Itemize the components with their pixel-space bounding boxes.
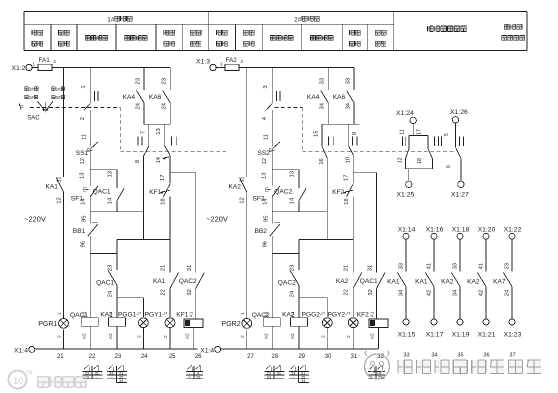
svg-text:X1:27: X1:27 — [451, 192, 469, 199]
svg-text:A2: A2 — [369, 333, 375, 339]
wire main to contactor coil — [89, 236, 91, 318]
svg-text:3: 3 — [263, 85, 269, 88]
svg-text:A2: A2 — [290, 333, 296, 339]
svg-text:KA4: KA4 — [307, 94, 320, 101]
SAC cam contact 9/10 — [348, 124, 350, 146]
svg-text:33: 33 — [403, 352, 409, 358]
wire branch down — [298, 240, 300, 254]
wire — [169, 197, 171, 240]
svg-text:X1:15: X1:15 — [398, 331, 416, 338]
svg-text:A2: A2 — [263, 333, 269, 339]
linkage dashed line pump1 — [30, 106, 120, 108]
contact cross-reference table KF1 — [188, 365, 193, 369]
SAC cam contact 13/14 — [164, 124, 166, 146]
svg-text:1: 1 — [220, 62, 223, 67]
svg-text:X1:20: X1:20 — [478, 227, 496, 234]
svg-text:34: 34 — [320, 102, 326, 109]
svg-text:41: 41 — [426, 263, 432, 269]
svg-text:2: 2 — [241, 59, 244, 64]
svg-text:1: 1 — [32, 62, 35, 67]
svg-text:23: 23 — [108, 265, 114, 271]
header cell: overload feedback signal 过负荷返回信号 — [504, 24, 509, 29]
svg-text:21: 21 — [160, 265, 166, 271]
svg-text:X1:24: X1:24 — [396, 110, 414, 117]
svg-text:KA1: KA1 — [153, 278, 166, 285]
svg-text:FA2: FA2 — [226, 57, 238, 64]
svg-text:23: 23 — [267, 375, 271, 379]
contact KA4 23/24 — [143, 68, 145, 90]
svg-text:KA1: KA1 — [415, 278, 428, 285]
wire node 17 — [170, 172, 196, 174]
svg-text:1: 1 — [163, 311, 169, 314]
svg-text:24: 24 — [135, 102, 141, 109]
svg-text:32: 32 — [187, 289, 193, 295]
svg-text:QAC1: QAC1 — [93, 189, 111, 196]
wire stop-lamp column pump1 — [63, 68, 65, 178]
selector switch SAC — [25, 87, 29, 91]
wire stop-lamp column pump2 — [246, 68, 248, 178]
wire node 17 — [353, 172, 376, 174]
svg-text:X1:2: X1:2 — [12, 65, 26, 72]
wire cam right bottom — [352, 155, 354, 173]
svg-text:X1:22: X1:22 — [504, 227, 522, 234]
svg-text:KA2: KA2 — [441, 278, 454, 285]
svg-text:2: 2 — [346, 335, 352, 338]
svg-text:1: 1 — [57, 312, 63, 315]
svg-text:12: 12 — [80, 158, 86, 164]
svg-text:17: 17 — [160, 175, 166, 181]
wire rejoin node — [90, 211, 143, 213]
wire node H2 — [299, 239, 353, 241]
header cell: pump1 备用自投 — [190, 30, 195, 35]
cam position bars — [137, 136, 139, 145]
contact QAC2 23/24 NO run-indicating — [298, 254, 300, 270]
contact cross-reference table KF2 — [370, 365, 375, 369]
svg-text:31: 31 — [350, 354, 357, 360]
svg-text:36: 36 — [483, 352, 489, 358]
header cell: pump2 备用自投 — [375, 30, 380, 35]
svg-text:2#: 2# — [56, 95, 62, 100]
wire — [271, 110, 273, 146]
svg-text:2: 2 — [57, 335, 63, 338]
svg-text:42: 42 — [426, 290, 432, 296]
wire main to contactor coil — [271, 236, 273, 318]
svg-text:11: 11 — [399, 129, 405, 134]
svg-text:24: 24 — [108, 290, 114, 297]
svg-text:13: 13 — [156, 128, 162, 134]
svg-text:7: 7 — [140, 131, 146, 134]
svg-text:BB1: BB1 — [73, 228, 86, 235]
wire main column top pump1 — [89, 68, 91, 104]
header cell: pump2 自动控制 — [311, 36, 316, 41]
svg-text:PGG2-: PGG2- — [302, 311, 323, 318]
svg-text:A1: A1 — [189, 311, 195, 317]
contact KA2 21/22 NC — [352, 240, 354, 273]
svg-text:18: 18 — [344, 198, 350, 204]
header cell: pump1 控制电源 — [32, 30, 37, 35]
svg-text:34: 34 — [398, 289, 404, 296]
wire rejoin node — [272, 211, 327, 213]
header cell: pump1 手动控制 — [85, 36, 90, 41]
svg-text:23: 23 — [504, 263, 510, 269]
svg-text:13: 13 — [262, 173, 268, 179]
svg-text:FA1: FA1 — [39, 57, 51, 64]
svg-text:12: 12 — [262, 158, 268, 164]
svg-text:X1:25: X1:25 — [397, 192, 415, 199]
wire — [352, 197, 354, 240]
svg-text:34: 34 — [345, 102, 351, 109]
svg-text:KF2: KF2 — [332, 189, 344, 196]
svg-text:QAC2: QAC2 — [179, 278, 197, 285]
svg-text:1#: 1# — [29, 95, 35, 100]
svg-text:14: 14 — [290, 197, 296, 204]
svg-text:KA7: KA7 — [493, 278, 506, 285]
svg-text:31: 31 — [187, 265, 193, 271]
svg-text:QAC1: QAC1 — [360, 278, 378, 285]
svg-text:A1: A1 — [108, 311, 114, 317]
svg-text:1#: 1# — [56, 87, 62, 92]
wire L bus pump2 — [239, 67, 354, 69]
svg-text:95: 95 — [82, 216, 88, 222]
wire cam left bottom — [326, 158, 328, 239]
svg-text:11: 11 — [264, 134, 270, 140]
svg-text:X1:19: X1:19 — [452, 331, 470, 338]
wire branch down — [116, 240, 118, 254]
svg-text:8: 8 — [135, 160, 141, 163]
svg-text:2: 2 — [53, 59, 56, 64]
svg-text:34: 34 — [119, 379, 123, 383]
svg-text:15: 15 — [314, 131, 320, 137]
svg-text:X1:14: X1:14 — [398, 227, 416, 234]
contact cross-reference table KA1 — [108, 365, 113, 369]
svg-text:18: 18 — [161, 198, 167, 204]
watermark seal circle (gray) — [365, 354, 390, 379]
header cell: pump1 故障指示 — [164, 30, 169, 35]
svg-text:31: 31 — [368, 265, 374, 271]
svg-text:14: 14 — [108, 197, 114, 204]
svg-text:X1:17: X1:17 — [426, 331, 444, 338]
header cell: pump2 故障指示 — [350, 30, 355, 35]
svg-text:22: 22 — [160, 289, 166, 295]
svg-text:KF1: KF1 — [149, 189, 161, 196]
svg-text:QAC2: QAC2 — [274, 189, 292, 196]
header cell: pump1 停泵指示 — [59, 30, 64, 35]
svg-text:14: 14 — [263, 198, 269, 205]
svg-text:A1: A1 — [290, 311, 296, 317]
svg-text:X1:4: X1:4 — [14, 347, 28, 354]
svg-text:KA2: KA2 — [336, 278, 349, 285]
svg-text:KA4: KA4 — [123, 94, 136, 101]
svg-text:17: 17 — [343, 175, 349, 181]
svg-text:16: 16 — [319, 158, 325, 164]
svg-text:KA1: KA1 — [46, 184, 59, 191]
svg-text:1#: 1# — [107, 16, 115, 23]
svg-text:A2: A2 — [185, 333, 191, 339]
svg-text:X1:23: X1:23 — [504, 331, 522, 338]
svg-text:96: 96 — [262, 241, 268, 247]
svg-text:24: 24 — [504, 289, 510, 296]
contact cross-reference table QAC1 — [84, 365, 89, 369]
wire — [246, 192, 248, 319]
svg-text:33: 33 — [320, 78, 326, 84]
svg-text:32: 32 — [368, 289, 374, 295]
header cell: pump1 自动控制 — [125, 36, 130, 41]
svg-text:PGY1-: PGY1- — [145, 311, 165, 318]
svg-text:13: 13 — [80, 173, 86, 179]
contact QAC2 31/32 interlock — [195, 173, 197, 273]
svg-text:X1:18: X1:18 — [452, 227, 470, 234]
svg-text:24: 24 — [162, 102, 168, 109]
svg-text:6: 6 — [446, 165, 452, 168]
svg-text:21: 21 — [344, 265, 350, 271]
wire node to lamp branch — [272, 253, 299, 255]
svg-text:KA6: KA6 — [149, 94, 162, 101]
node split manual/auto — [90, 169, 117, 171]
svg-text:26: 26 — [195, 354, 202, 360]
svg-text:12: 12 — [398, 157, 404, 163]
svg-text:30: 30 — [325, 354, 332, 360]
svg-text:2#: 2# — [29, 87, 35, 92]
contact cross-reference table KA2 — [290, 365, 295, 369]
header cell: pump2 停泵指示 — [243, 30, 248, 35]
svg-text:A2: A2 — [108, 333, 114, 339]
svg-text:24: 24 — [290, 290, 296, 297]
svg-text:PGY2-: PGY2- — [328, 311, 348, 318]
wire — [246, 330, 248, 349]
svg-text:41: 41 — [478, 263, 484, 269]
svg-text:2: 2 — [240, 335, 246, 338]
header cell: fire feedback signal 消防返回信号 — [428, 26, 434, 32]
contact KA6 23/24 — [169, 68, 171, 90]
watermark text 国家建筑标准设计 (gray) — [398, 360, 412, 374]
svg-text:58: 58 — [27, 370, 33, 376]
wire N bus pump2 — [221, 348, 378, 350]
svg-text:KF2: KF2 — [357, 311, 369, 318]
SAC cam contact 7/8 — [148, 124, 150, 146]
svg-text:34: 34 — [301, 379, 305, 383]
wire join KA4/KA6 — [322, 123, 359, 125]
linkage dashed main run 2 — [302, 151, 453, 153]
svg-text:13: 13 — [107, 171, 113, 177]
svg-text:QAC2: QAC2 — [278, 280, 296, 287]
contact cross-reference table QAC2 — [266, 365, 271, 369]
svg-text:F: F — [20, 105, 24, 112]
svg-text:2#: 2# — [294, 16, 302, 23]
wire main column top pump2 — [271, 68, 273, 104]
svg-text:2: 2 — [163, 335, 169, 338]
svg-text:2: 2 — [320, 335, 326, 338]
svg-text:13: 13 — [289, 171, 295, 177]
svg-text:PGR2: PGR2 — [222, 321, 241, 328]
contact QAC1 23/24 NO run-indicating — [116, 254, 118, 270]
svg-text:X1:4: X1:4 — [200, 347, 214, 354]
svg-text:KA2: KA2 — [467, 278, 480, 285]
svg-text:29: 29 — [298, 354, 305, 360]
svg-text:KF1: KF1 — [176, 311, 188, 318]
wire L bus pump1 — [52, 67, 170, 69]
svg-text:PGG1-: PGG1- — [118, 311, 139, 318]
svg-text:33: 33 — [345, 78, 351, 84]
svg-text:23: 23 — [290, 265, 296, 271]
svg-text:12: 12 — [56, 197, 62, 203]
svg-text:1: 1 — [240, 312, 246, 315]
contact KA1 21/22 NC — [169, 240, 171, 273]
svg-text:KA2: KA2 — [229, 184, 242, 191]
cam position bars — [327, 136, 329, 145]
svg-text:A2: A2 — [81, 333, 87, 339]
wire — [63, 192, 65, 319]
svg-text:35: 35 — [457, 352, 463, 358]
svg-text:12: 12 — [240, 197, 246, 203]
svg-text:PGR1: PGR1 — [38, 321, 57, 328]
svg-text:34: 34 — [431, 352, 437, 358]
wire N bus pump1 — [35, 348, 198, 350]
wire — [216, 67, 225, 69]
svg-text:~220V: ~220V — [206, 214, 228, 223]
svg-text:23: 23 — [135, 78, 141, 84]
svg-text:10: 10 — [13, 376, 24, 387]
svg-text:5: 5 — [444, 133, 450, 136]
linkage dashed line pump2 — [275, 106, 303, 108]
svg-text:28: 28 — [272, 354, 279, 360]
svg-text:42: 42 — [478, 290, 484, 296]
svg-text:22: 22 — [89, 354, 96, 360]
header cell: pump2 控制电源 — [217, 30, 222, 35]
contact KA6 33/34 — [353, 68, 355, 90]
svg-text:2: 2 — [80, 117, 86, 120]
svg-text:X1:16: X1:16 — [426, 227, 444, 234]
node split manual/auto — [272, 169, 299, 171]
svg-text:QAC1: QAC1 — [96, 280, 114, 287]
wire to green lamp — [117, 297, 143, 299]
svg-text:10: 10 — [346, 157, 352, 163]
svg-text:X1:3: X1:3 — [196, 59, 210, 66]
SAC cam contact 15/16 — [321, 124, 323, 146]
contact KA4 33/34 — [327, 68, 329, 90]
linkage dashed main run 1 — [120, 151, 226, 153]
header table frame — [24, 11, 527, 13]
linkage arrow — [163, 157, 169, 159]
svg-text:14: 14 — [156, 156, 162, 163]
svg-text:1: 1 — [346, 311, 352, 314]
wire — [89, 110, 91, 146]
svg-text:~220V: ~220V — [24, 214, 46, 223]
svg-text:A1: A1 — [369, 311, 375, 317]
svg-text:23: 23 — [115, 354, 122, 360]
svg-text:1: 1 — [136, 311, 142, 314]
svg-text:A1: A1 — [263, 311, 269, 317]
svg-text:27: 27 — [247, 354, 254, 360]
wire to green lamp — [299, 297, 327, 299]
wire — [271, 149, 273, 170]
contact QAC1 31/32 interlock — [376, 173, 378, 273]
svg-text:23: 23 — [162, 78, 168, 84]
svg-text:22: 22 — [344, 289, 350, 295]
svg-text:BB2: BB2 — [255, 228, 268, 235]
svg-text:95: 95 — [264, 216, 270, 222]
svg-text:17: 17 — [416, 129, 422, 135]
svg-text:1: 1 — [81, 85, 87, 88]
wire node H2 — [117, 239, 170, 241]
wire cam right bottom — [169, 155, 171, 173]
wire — [89, 149, 91, 170]
header cell: pump2 手动控制 — [270, 36, 275, 41]
wire join KA4/KA6 — [144, 123, 170, 125]
svg-text:X1:21: X1:21 — [478, 331, 496, 338]
svg-text:33: 33 — [398, 263, 404, 269]
svg-text:96: 96 — [80, 241, 86, 247]
svg-text:KA1: KA1 — [387, 278, 400, 285]
svg-text:34: 34 — [452, 289, 458, 296]
svg-text:2: 2 — [136, 335, 142, 338]
svg-text:KA6: KA6 — [333, 94, 346, 101]
svg-text:21: 21 — [57, 354, 64, 360]
wire cam left bottom — [142, 156, 144, 239]
svg-text:11: 11 — [82, 134, 88, 140]
svg-text:24: 24 — [141, 354, 148, 360]
wire — [32, 67, 38, 69]
svg-text:37: 37 — [509, 352, 515, 358]
svg-text:9: 9 — [352, 132, 358, 135]
svg-text:25: 25 — [169, 354, 176, 360]
watermark logo bottom-left (light gray) — [9, 371, 27, 389]
wire — [63, 330, 65, 349]
svg-text:33: 33 — [452, 263, 458, 269]
svg-text:18: 18 — [417, 158, 423, 164]
svg-text:1: 1 — [320, 311, 326, 314]
svg-text:14: 14 — [81, 198, 87, 205]
svg-text:A1: A1 — [81, 311, 87, 317]
svg-text:25: 25 — [196, 375, 200, 379]
svg-text:X1:26: X1:26 — [450, 109, 468, 116]
svg-text:SAC: SAC — [27, 116, 40, 122]
wire node to lamp branch — [90, 253, 117, 255]
